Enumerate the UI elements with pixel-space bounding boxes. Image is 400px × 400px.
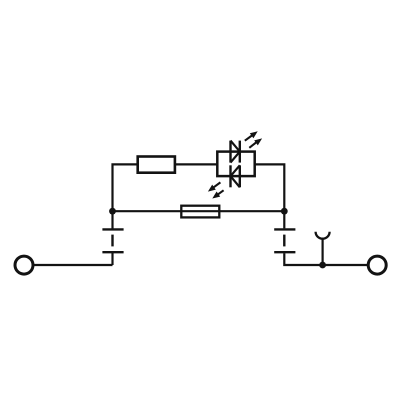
LED block box (217, 152, 254, 177)
wire: LED block to right drop (255, 164, 285, 211)
LED D1 emission arrow 2 (249, 138, 262, 147)
right disconnect upper bar (274, 228, 295, 230)
resistor R (138, 157, 175, 173)
node C junction dot (319, 262, 326, 269)
right terminal circle (368, 256, 386, 274)
wire: middle branch node A to fuse (113, 210, 182, 212)
LED D1 anode bar (229, 141, 231, 163)
LED D1 cathode bar (239, 141, 241, 163)
LED D1 triangle (231, 141, 240, 163)
LED D2 triangle (231, 165, 240, 187)
LED D2 emission arrow 2 (212, 190, 223, 198)
test socket stem (322, 239, 324, 265)
wire: left disconnect lower lead (111, 251, 113, 265)
wire: node C to right terminal (323, 264, 368, 266)
left terminal circle (15, 256, 33, 274)
right disconnect lower bar (274, 251, 295, 253)
LED D1 emission arrow 1 (245, 131, 258, 140)
left disconnect upper bar (102, 228, 123, 230)
wire: resistor to LED block (175, 163, 217, 165)
wire: node B to right disconnect (283, 211, 285, 228)
wire: left terminal to left disconnect (33, 264, 112, 266)
wire: left disconnect to node A (111, 211, 113, 230)
left disconnect lower bar (102, 251, 123, 253)
wire: fuse interior and to node B (181, 210, 284, 212)
wire: right disconnect to bottom wire (284, 253, 322, 265)
left disconnect middle dash (111, 235, 113, 247)
wire: node A up to top branch (113, 164, 138, 211)
fuse F (181, 206, 219, 218)
right disconnect middle dash (283, 235, 285, 247)
LED D2 emission arrow 1 (208, 182, 221, 191)
node B junction dot (281, 208, 288, 215)
LED D2 anode bar (239, 165, 241, 187)
LED D2 cathode bar (229, 165, 231, 187)
node A junction dot (109, 208, 116, 215)
test socket cup (316, 232, 330, 239)
